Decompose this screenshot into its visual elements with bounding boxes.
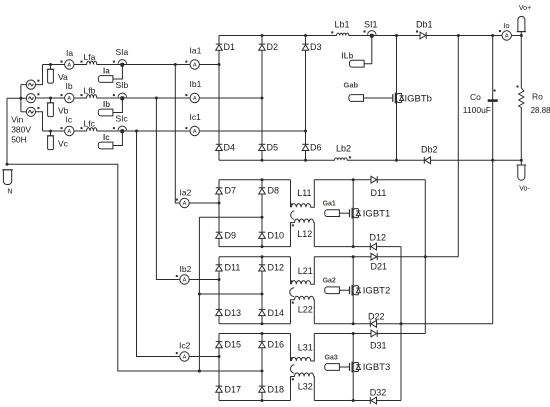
switch SI1	[368, 31, 376, 38]
diode D10	[259, 232, 266, 238]
wire bridge4 top rail	[219, 333, 291, 335]
coupling arc L31-L32	[290, 365, 294, 374]
diode D5	[259, 144, 266, 150]
svg-text:Ga2: Ga2	[323, 278, 336, 285]
ammeter Ia	[61, 60, 75, 69]
svg-text:Co: Co	[470, 92, 481, 102]
wire cell2 bottom line	[314, 323, 492, 325]
diode D16	[259, 342, 266, 348]
svg-text:Ia: Ia	[66, 48, 73, 58]
svg-text:D14: D14	[268, 308, 285, 318]
svg-text:380V: 380V	[11, 125, 31, 135]
voltmeter probe Vc	[47, 130, 55, 150]
label box Ga3	[325, 364, 340, 371]
diode D6	[302, 144, 309, 150]
label box ILb	[350, 60, 365, 67]
svg-text:D13: D13	[225, 308, 242, 318]
svg-text:A: A	[505, 34, 509, 40]
svg-text:Vin: Vin	[11, 115, 23, 125]
wire bridge2 top rail	[219, 179, 291, 181]
diode D21 output	[371, 253, 377, 260]
wire bridge2 bottom rail	[219, 246, 291, 248]
voltmeter probe Vb	[47, 97, 55, 117]
svg-text:D18: D18	[268, 385, 285, 395]
junction node N	[6, 163, 9, 166]
svg-text:D17: D17	[225, 385, 242, 395]
svg-text:Db2: Db2	[421, 145, 438, 155]
wire bridge3 bottom rail	[219, 323, 291, 325]
diode D18	[259, 386, 266, 392]
svg-text:Vo-: Vo-	[519, 185, 530, 192]
svg-text:IGBT3: IGBT3	[363, 362, 390, 373]
junction phase C drop	[135, 130, 138, 133]
switch SIb	[113, 93, 127, 100]
voltmeter probe Va	[47, 63, 55, 83]
diode D12	[259, 265, 266, 271]
wire cell1 bottom line	[314, 246, 401, 248]
junction phase B to leg2	[261, 97, 264, 100]
svg-text:Db1: Db1	[416, 20, 433, 30]
wire phase A line	[43, 64, 220, 66]
svg-text:D8: D8	[268, 186, 280, 196]
wire bridge2 leg1	[218, 180, 220, 247]
junction IGBT1 emitter	[352, 245, 355, 248]
ammeter Ic2	[176, 352, 189, 361]
junction IGBTb collector	[395, 34, 398, 37]
svg-text:Ic: Ic	[66, 114, 73, 124]
svg-text:IGBTb: IGBTb	[405, 94, 432, 105]
wire source C down to phase C	[35, 112, 42, 131]
wire top rail (bridge to Vo+)	[219, 35, 521, 37]
svg-text:D21: D21	[371, 262, 388, 272]
wire L11 to cell top	[311, 180, 315, 208]
svg-text:Ic: Ic	[103, 133, 110, 142]
svg-text:Ia: Ia	[103, 66, 110, 75]
label box Ib	[98, 109, 113, 116]
diode Db2	[424, 157, 430, 164]
terminal Vo-	[517, 159, 527, 180]
svg-text:Ib: Ib	[103, 100, 110, 109]
svg-text:A: A	[183, 278, 187, 284]
diode D9	[216, 232, 223, 238]
diode D32 output	[370, 397, 376, 404]
junction neutral bus cell2	[198, 293, 201, 296]
junction phase A to leg1	[218, 63, 221, 66]
junction bridge4 ac1	[218, 355, 221, 358]
svg-text:L32: L32	[298, 382, 313, 392]
junction top rail leg3	[304, 34, 307, 37]
label box Ga1 wire	[339, 212, 349, 214]
wire L12 to cell bottom	[313, 223, 316, 247]
inductor L12	[292, 219, 314, 226]
ammeter Ia1	[185, 60, 199, 69]
wire bridge2 ac1 input	[189, 202, 219, 204]
wire rectifier leg 3	[305, 36, 307, 161]
junction bridge3 bottom mid	[261, 322, 264, 325]
svg-text:A: A	[67, 129, 71, 135]
coupling arc L11-L12	[291, 211, 294, 220]
junction IGBT1 collector	[352, 178, 355, 181]
wire neutral from N junction	[7, 164, 262, 371]
inductor L31	[291, 357, 311, 362]
ammeter Ic	[61, 126, 75, 135]
svg-text:D10: D10	[268, 231, 285, 241]
svg-text:L31: L31	[298, 343, 313, 353]
wire bridge4 to L32	[291, 377, 295, 401]
diode D1	[216, 44, 223, 50]
svg-text:50H: 50H	[11, 134, 27, 144]
junction IGBT2 collector	[352, 255, 355, 258]
wire sources common vertical	[20, 85, 22, 112]
switch SIc	[113, 126, 127, 133]
svg-text:Ib: Ib	[66, 81, 73, 91]
svg-text:IGBT1: IGBT1	[363, 209, 390, 220]
wire bridge2 leg2	[261, 180, 263, 247]
svg-text:A: A	[193, 63, 197, 69]
ammeter Ib	[61, 93, 75, 102]
junction neutral bus bottom	[198, 370, 201, 373]
wire L21 to cell top	[311, 257, 315, 285]
junction IGBTb emitter	[395, 159, 398, 162]
junction bottom rail Co	[491, 159, 494, 162]
capacitor Co vertical	[492, 36, 494, 324]
transistor IGBT2 vertical	[352, 257, 354, 324]
diode D31 output	[371, 330, 377, 337]
junction top rail 458	[457, 34, 460, 37]
svg-text:D5: D5	[267, 143, 279, 153]
wire phase B line	[35, 97, 262, 99]
wire L22 to cell bottom	[313, 300, 316, 324]
label box Ga2	[325, 287, 340, 294]
transistor IGBT2	[349, 285, 361, 296]
svg-text:Lfb: Lfb	[84, 86, 96, 96]
terminal N	[2, 170, 13, 185]
diode D7	[216, 188, 223, 194]
svg-text:D6: D6	[310, 143, 322, 153]
svg-text:Ia1: Ia1	[190, 46, 202, 56]
svg-text:1100uF: 1100uF	[463, 105, 491, 115]
junction bridge3 ac1	[218, 278, 221, 281]
label box Ib wire	[113, 100, 122, 113]
junction top rail leg2	[261, 34, 264, 37]
svg-text:D7: D7	[225, 186, 237, 196]
wire source A up to phase A	[35, 65, 42, 85]
wire rectifier leg 2	[261, 36, 263, 161]
junction bridge3 top mid	[261, 255, 264, 258]
svg-text:D3: D3	[310, 42, 322, 52]
svg-text:Lfc: Lfc	[84, 119, 96, 129]
svg-text:28.88: 28.88	[531, 106, 550, 115]
svg-text:Lb1: Lb1	[335, 20, 350, 30]
inductor Lfa	[81, 61, 97, 66]
junction IGBT2 emitter	[352, 322, 355, 325]
diode D2	[259, 44, 266, 50]
ammeter Ib1	[185, 93, 199, 102]
svg-text:Vc: Vc	[58, 139, 69, 149]
wire bridge3 ac2 input	[199, 293, 262, 295]
wire bridge2 to L12	[291, 223, 295, 247]
svg-text:A: A	[183, 355, 187, 361]
inductor Lb2	[335, 156, 351, 161]
svg-text:SI1: SI1	[364, 20, 378, 30]
label box Ia	[98, 76, 113, 83]
wire output bus 458 vertical	[457, 36, 459, 257]
junction bridge4 top mid	[261, 332, 264, 335]
label box Ga3 wire	[339, 366, 349, 368]
diode D11 output	[371, 176, 377, 183]
wire cell3 bottom line	[314, 400, 401, 402]
svg-text:A: A	[193, 96, 197, 102]
inductor Lb1	[331, 31, 365, 37]
junction chain at D21 line	[424, 255, 427, 258]
svg-text:Vo+: Vo+	[519, 5, 531, 12]
wire bridge4 leg1	[218, 334, 220, 401]
capacitor Co	[488, 90, 498, 102]
inductor L21	[291, 280, 311, 285]
wire bridge2 to L11	[290, 180, 292, 208]
label box ILb wire	[363, 37, 372, 64]
wire stub to source Va	[21, 84, 26, 86]
junction bottom rail leg2	[261, 159, 264, 162]
svg-text:L11: L11	[297, 188, 311, 198]
wire bridge3 leg2	[261, 257, 263, 324]
svg-text:L21: L21	[298, 266, 313, 276]
svg-text:Io: Io	[503, 21, 509, 30]
svg-text:Lfa: Lfa	[84, 52, 96, 62]
svg-text:Ic2: Ic2	[179, 341, 191, 351]
label box Gab wire	[362, 97, 393, 99]
diode D4	[216, 144, 223, 150]
svg-text:Ga3: Ga3	[325, 354, 338, 361]
svg-text:D9: D9	[225, 231, 237, 241]
svg-text:D11: D11	[225, 263, 241, 273]
wire drop phase B to Ib2	[156, 98, 179, 280]
label box Gab	[349, 95, 364, 102]
wire drop phase A to Ia2	[175, 65, 179, 204]
junction bridge2 bottom mid	[261, 245, 264, 248]
ammeter Ic1	[185, 126, 199, 135]
ammeter Io	[499, 30, 511, 40]
svg-text:SIc: SIc	[116, 113, 129, 123]
source Va	[26, 80, 39, 90]
svg-text:L22: L22	[298, 304, 313, 314]
junction bridge2 ac1	[218, 202, 221, 205]
svg-text:D22: D22	[368, 311, 385, 321]
inductor Lfb	[81, 94, 97, 99]
svg-text:D4: D4	[224, 143, 236, 153]
junction sources common	[19, 97, 22, 100]
svg-text:IGBT2: IGBT2	[363, 286, 390, 297]
junction phase A drop	[174, 63, 177, 66]
svg-text:SIa: SIa	[116, 47, 129, 57]
wire bridge3 to L22	[291, 300, 295, 324]
junction chain at D22 line	[400, 322, 403, 325]
inductor L22	[292, 296, 314, 303]
inductor Lfc	[81, 127, 97, 132]
wire bridge4 bottom rail	[219, 400, 291, 402]
wire bridge3 ac1 input	[189, 279, 219, 281]
wire source common riser from N to phase sources	[6, 98, 8, 164]
transistor IGBT1 vertical	[352, 180, 354, 247]
label box Ia wire	[113, 66, 122, 79]
switch SIa	[113, 60, 127, 67]
junction bridge4 ac2	[261, 370, 264, 373]
svg-text:Ga1: Ga1	[323, 201, 336, 208]
wire Ro vertical bottom	[520, 109, 522, 160]
inductor L11	[291, 203, 311, 208]
wire L32 to cell bottom	[313, 377, 316, 401]
junction top rail Co	[491, 34, 494, 37]
junction neutral bus cell3	[198, 370, 201, 373]
junction IGBT3 collector	[352, 332, 355, 335]
wire bridge4 to L31	[290, 334, 292, 362]
diode D13	[216, 309, 223, 315]
wire drop phase C to Ic2	[137, 131, 180, 357]
svg-text:ILb: ILb	[341, 52, 353, 61]
wire output chain D12-D22-D32	[400, 247, 402, 401]
diode D11	[216, 265, 223, 271]
diode D3	[302, 44, 309, 50]
resistor Ro	[517, 86, 524, 110]
ammeter Ia2	[176, 198, 189, 207]
source Vb	[26, 93, 39, 102]
transistor IGBTb vertical	[396, 36, 398, 161]
svg-text:D12: D12	[370, 232, 387, 242]
terminal Vo+	[517, 16, 526, 37]
svg-text:Ib1: Ib1	[190, 79, 202, 89]
label box Ic	[98, 142, 113, 149]
svg-text:N: N	[7, 189, 12, 196]
wire phase C line	[43, 130, 306, 132]
svg-text:A: A	[193, 129, 197, 135]
svg-text:Gab: Gab	[344, 81, 359, 90]
svg-text:SIb: SIb	[116, 80, 129, 90]
wire stub to source Vc	[21, 111, 26, 113]
wire bridge4 ac2 input	[199, 370, 262, 372]
source Vc	[26, 107, 39, 117]
junction bridge3 ac2	[261, 293, 264, 296]
svg-text:Lb2: Lb2	[336, 144, 351, 154]
svg-text:A: A	[67, 96, 71, 102]
wire stub to source Vb	[7, 97, 26, 99]
svg-text:A: A	[183, 201, 187, 207]
svg-text:D15: D15	[225, 340, 242, 350]
wire output chain D11-D21-D31	[424, 180, 426, 334]
label box Ga1	[325, 210, 340, 217]
wire bridge4 ac1 input	[189, 356, 219, 358]
diode Db1	[416, 31, 426, 39]
wire rectifier leg 1	[218, 36, 220, 161]
wire L31 to cell top	[311, 334, 315, 362]
svg-text:Ro: Ro	[532, 92, 543, 102]
svg-text:D2: D2	[267, 42, 279, 52]
svg-text:Ib2: Ib2	[180, 264, 192, 274]
diode D14	[259, 309, 266, 315]
label box Ic wire	[113, 133, 122, 146]
ammeter Ib2	[176, 275, 189, 284]
transistor IGBTb	[392, 93, 404, 104]
junction phase C to leg3	[304, 130, 307, 133]
junction bottom rail leg3	[304, 159, 307, 162]
svg-text:Ia2: Ia2	[180, 188, 192, 198]
wire cell3 top line	[314, 333, 425, 335]
svg-text:Ic1: Ic1	[190, 112, 202, 122]
junction phase B drop	[155, 97, 158, 100]
wire bridge3 to L21	[290, 257, 292, 285]
inductor L32	[292, 373, 314, 380]
wire bridge2 ac2 input	[199, 216, 262, 218]
coupling arc L21-L22	[290, 288, 294, 297]
diode D17	[216, 386, 223, 392]
junction bridge2 top mid	[261, 178, 264, 181]
wire bridge3 leg1	[218, 257, 220, 324]
svg-text:D31: D31	[370, 341, 387, 351]
svg-text:D12: D12	[268, 263, 285, 273]
junction bridge4 bottom mid	[261, 399, 264, 402]
wire neutral bus vertical	[198, 217, 200, 371]
wire bridge3 top rail	[219, 256, 291, 258]
transistor IGBT3	[349, 362, 361, 373]
label box Ga2 wire	[339, 289, 349, 291]
svg-text:D16: D16	[268, 340, 285, 350]
svg-text:A: A	[67, 63, 71, 69]
junction bridge2 ac2	[261, 216, 264, 219]
transistor IGBT3 vertical	[352, 334, 354, 401]
svg-text:D1: D1	[224, 42, 236, 52]
wire Ro vertical top	[520, 36, 522, 89]
diode D22 output	[370, 320, 376, 327]
transistor IGBT1	[349, 208, 361, 219]
diode D8	[259, 188, 266, 194]
wire bridge4 leg2	[261, 334, 263, 401]
wire bottom rail (bridge to Vo-)	[219, 159, 521, 161]
junction IGBT3 emitter	[352, 399, 355, 402]
svg-text:D32: D32	[370, 388, 387, 398]
svg-text:D11: D11	[371, 188, 387, 198]
diode D12 output	[370, 243, 376, 250]
wire cell2 top line	[314, 256, 458, 258]
wire cell1 top line	[314, 179, 425, 181]
svg-text:L12: L12	[297, 229, 312, 239]
diode D15	[216, 342, 223, 348]
